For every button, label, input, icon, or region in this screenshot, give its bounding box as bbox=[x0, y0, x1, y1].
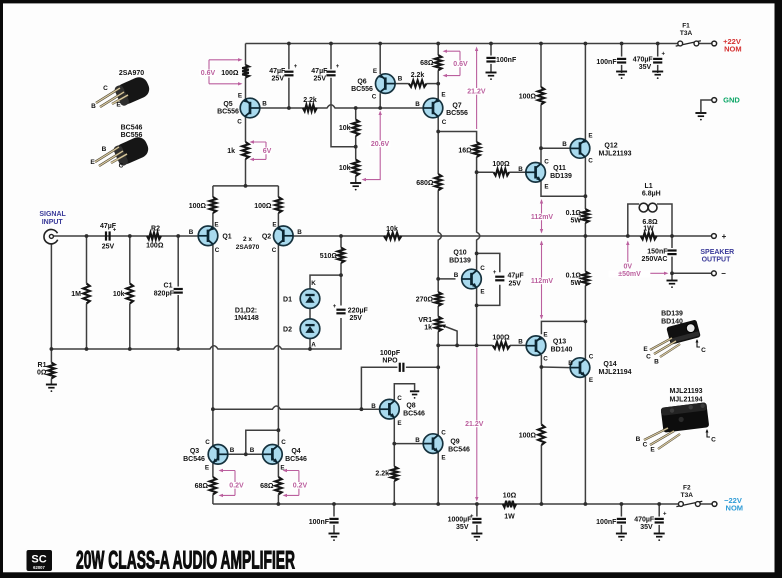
wire NPO branch bbox=[406, 366, 438, 368]
label Q3 B bbox=[230, 447, 235, 454]
label D2 bbox=[283, 327, 292, 334]
svg-text:C: C bbox=[480, 265, 485, 272]
label -22V bbox=[724, 496, 742, 505]
label Q5 E bbox=[238, 93, 242, 100]
terminal -22V bbox=[712, 502, 717, 507]
resistor 100ohm Q11 col bbox=[538, 87, 545, 105]
resistor 10k bias b bbox=[352, 160, 359, 177]
svg-text:5W: 5W bbox=[571, 218, 582, 225]
junction rail 2.2k bbox=[392, 502, 396, 506]
svg-text:680Ω: 680Ω bbox=[416, 180, 434, 187]
label Q1 bbox=[222, 234, 231, 241]
svg-text:Q12: Q12 bbox=[604, 143, 617, 150]
svg-text:Q5: Q5 bbox=[223, 101, 232, 108]
label 25V input bbox=[102, 244, 115, 251]
label Q10 B bbox=[454, 272, 459, 279]
junction VR1 wiper bbox=[455, 344, 459, 348]
label 10ohm bbox=[503, 493, 517, 500]
label 6.8ohm bbox=[642, 219, 658, 226]
svg-text:R1: R1 bbox=[38, 362, 47, 369]
label 1k bbox=[227, 148, 235, 155]
label Q8 E bbox=[397, 420, 401, 427]
wire rail to F1 output bbox=[699, 43, 712, 45]
label 1000uF 35V bbox=[456, 524, 469, 531]
capacitor 220uF bbox=[333, 304, 346, 313]
svg-text:BC556: BC556 bbox=[217, 109, 239, 116]
annotation 20.6V bbox=[362, 111, 391, 182]
ground 470uF neg bbox=[654, 534, 665, 541]
label speaker minus sign bbox=[721, 269, 726, 278]
junction rail 100ohm out bbox=[540, 502, 544, 506]
wire 10k vertical bbox=[129, 236, 131, 284]
label Q3 E bbox=[205, 465, 209, 472]
label Q14 C bbox=[589, 354, 594, 361]
junction 16ohm 100ohm node bbox=[475, 170, 479, 174]
label 10k input bbox=[113, 291, 125, 298]
capacitor C1 820pF bbox=[174, 289, 183, 293]
wire Q9 E to rail bbox=[437, 452, 439, 504]
capacitor 470uF neg bbox=[655, 512, 667, 523]
junction Q4 CB link bbox=[277, 428, 281, 432]
terminal speaker minus bbox=[712, 271, 717, 276]
label BD pkg B bbox=[654, 359, 659, 366]
wire 100ohm to Q5 E bbox=[245, 78, 247, 100]
wire tail right to 100ohm bbox=[277, 186, 279, 197]
package drawing BC546 BC556 bbox=[95, 134, 151, 167]
svg-text:100Ω: 100Ω bbox=[221, 70, 239, 77]
wire 68ohm to rail right bbox=[277, 495, 279, 505]
junction rail 1000uF bbox=[475, 502, 479, 506]
svg-text:B: B bbox=[250, 447, 255, 454]
resistor R1 0ohm bbox=[48, 363, 55, 379]
svg-text:C: C bbox=[372, 94, 377, 101]
svg-text:100nF: 100nF bbox=[596, 59, 617, 66]
label 47uF b bbox=[311, 68, 328, 75]
wire Q9 B wire bbox=[394, 443, 423, 445]
label Q14 E bbox=[589, 377, 593, 384]
svg-text:20W CLASS-A AUDIO AMPLIFIER: 20W CLASS-A AUDIO AMPLIFIER bbox=[76, 546, 295, 574]
junction Q11 E wire bbox=[584, 194, 588, 198]
svg-text:100pF: 100pF bbox=[380, 350, 401, 357]
svg-text:47µF: 47µF bbox=[311, 68, 328, 75]
wire Q3 E to 68ohm bbox=[212, 463, 214, 477]
label 2.2k Q6 bbox=[411, 72, 425, 79]
label MJL pkg C bbox=[643, 442, 648, 449]
svg-text:B: B bbox=[398, 76, 403, 83]
label 2.2k base bbox=[303, 97, 317, 104]
svg-text:Q3: Q3 bbox=[190, 448, 199, 455]
label Q10 bbox=[453, 250, 466, 257]
resistor 2.2k Q5 base bbox=[303, 105, 317, 112]
svg-text:C: C bbox=[442, 119, 447, 126]
wire rail to F1 bbox=[677, 43, 679, 45]
svg-text:Q4: Q4 bbox=[291, 448, 300, 455]
wire rail to 68ohm bbox=[437, 44, 439, 56]
junction B link bbox=[244, 452, 248, 456]
wire Q11 E down bbox=[541, 181, 585, 196]
wire node to Q10 C bbox=[476, 253, 478, 270]
wire 1000uF to ground bbox=[476, 525, 478, 533]
junction rail Q4 68ohm bbox=[277, 502, 281, 506]
svg-text:C: C bbox=[237, 119, 242, 126]
svg-text:R2: R2 bbox=[151, 226, 160, 233]
wire VR1 to node bbox=[437, 332, 439, 435]
svg-text:35V: 35V bbox=[456, 524, 469, 531]
label Q4 C bbox=[281, 439, 286, 446]
label Q6 E bbox=[373, 68, 377, 75]
svg-text:B: B bbox=[262, 101, 267, 108]
label VR1 1k bbox=[424, 325, 432, 332]
wire rail to Q6 E bbox=[379, 44, 381, 75]
label 100ohm Q1 bbox=[189, 203, 207, 210]
svg-text:F2: F2 bbox=[683, 485, 691, 492]
terminal GND bbox=[712, 98, 717, 103]
resistor 100ohm Q13 base bbox=[493, 342, 510, 349]
wire R1 to ground bbox=[50, 349, 52, 363]
svg-text:10Ω: 10Ω bbox=[503, 493, 517, 500]
label SIGNAL bbox=[39, 211, 66, 218]
wire 680ohm to rail hop bbox=[438, 190, 441, 279]
resistor R2 100ohm bbox=[147, 233, 161, 240]
wire 47uF bottom branch bbox=[477, 285, 500, 306]
label R1 0ohm bbox=[37, 370, 47, 377]
svg-text:OUTPUT: OUTPUT bbox=[702, 257, 732, 264]
wire gnd terminal bbox=[701, 100, 712, 112]
wire 16ohm to 100ohm node bbox=[476, 157, 478, 172]
svg-text:100Ω: 100Ω bbox=[146, 243, 164, 250]
annotation 6V bbox=[250, 140, 272, 161]
label BC556 pkg bbox=[121, 132, 143, 139]
wire mirror to Q8 base bbox=[213, 406, 380, 409]
wire 100ohm to Q2 E bbox=[277, 213, 279, 227]
label Q9 B bbox=[415, 437, 420, 444]
ground 10k bias bbox=[350, 183, 361, 191]
resistor 270ohm bbox=[435, 292, 442, 306]
wire 10k mid bbox=[355, 136, 357, 160]
transistor Q5 BC556 bbox=[240, 98, 260, 118]
label Q1 B bbox=[189, 229, 194, 236]
ground R1 bbox=[46, 385, 57, 393]
resistor 6.8ohm bbox=[641, 233, 657, 240]
svg-text:BD140: BD140 bbox=[551, 347, 573, 354]
svg-text:112mV: 112mV bbox=[531, 278, 554, 285]
wire 16ohm node to 100ohm bbox=[477, 171, 494, 173]
svg-text:1W: 1W bbox=[504, 514, 515, 521]
ground 1000uF bbox=[471, 534, 482, 541]
wire Q3 B link bbox=[228, 453, 246, 455]
svg-text:1000µF: 1000µF bbox=[448, 517, 473, 524]
svg-text:Q6: Q6 bbox=[357, 79, 366, 86]
capacitor 100nF psu bbox=[617, 59, 626, 63]
junction bottom C1 bbox=[176, 347, 180, 351]
junction rail 47uF a bbox=[287, 42, 291, 46]
junction input bottom R1 bbox=[50, 347, 54, 351]
label Q7 B bbox=[415, 101, 420, 108]
label Q13 B bbox=[518, 339, 523, 346]
label Q6 BC556 bbox=[351, 86, 373, 93]
label Q2 E bbox=[272, 222, 276, 229]
label 100ohm output bbox=[519, 433, 537, 440]
label Q2 bbox=[262, 234, 271, 241]
transistor Q7 BC556 bbox=[423, 98, 443, 118]
svg-text:E: E bbox=[650, 447, 655, 454]
label 2SA970 E bbox=[116, 102, 121, 109]
label F1 T3A bbox=[680, 30, 693, 37]
svg-text:2 x: 2 x bbox=[243, 236, 252, 243]
wire 510ohm to diode node bbox=[340, 263, 342, 275]
svg-text:470µF: 470µF bbox=[634, 517, 655, 524]
wire Q10 E down bbox=[476, 288, 478, 346]
annotation 112mV upper bbox=[531, 199, 554, 234]
junction bias node bbox=[436, 344, 440, 348]
svg-text:2.2k: 2.2k bbox=[303, 97, 317, 104]
annotation 0.6V Q5 bbox=[199, 58, 242, 85]
wire VAS node to 16ohm bbox=[438, 132, 476, 143]
capacitor 100nF rail bbox=[486, 58, 495, 62]
junction rail 100nF psu bbox=[620, 42, 624, 46]
label 68ohm VAS bbox=[420, 60, 434, 67]
label Q9 BC546 bbox=[448, 447, 470, 454]
wire NPO to Q8 base node bbox=[361, 367, 397, 409]
wire Q6 C down bbox=[379, 93, 381, 108]
transistor Q12 MJL21193 bbox=[570, 139, 590, 159]
label speaker plus sign bbox=[722, 232, 727, 241]
junction base line 47uF a bbox=[287, 106, 291, 110]
label 470uF psu bbox=[633, 57, 654, 64]
wire 270ohm to VR1 bbox=[437, 306, 439, 317]
label BC546 pkg bbox=[121, 125, 143, 132]
wire base line to 10k bbox=[355, 108, 357, 120]
svg-text:A: A bbox=[311, 342, 316, 349]
wire rail to 47uF b bbox=[330, 44, 332, 70]
svg-text:BD140: BD140 bbox=[661, 319, 683, 326]
resistor 100ohm Q1 load bbox=[210, 197, 217, 213]
svg-text:E: E bbox=[544, 184, 548, 191]
fuse F1 bbox=[676, 41, 701, 46]
label NPO bbox=[382, 358, 398, 365]
svg-text:25V: 25V bbox=[350, 315, 363, 322]
label 820pF bbox=[154, 291, 175, 298]
wire Q6 B to 2.2k bbox=[395, 83, 409, 85]
label Q13 C bbox=[543, 356, 548, 363]
wire 0.1ohm b to Q13 E node bbox=[584, 286, 586, 359]
label Q9 E bbox=[441, 455, 445, 462]
junction rail 68ohm bbox=[436, 42, 440, 46]
label 150nF bbox=[647, 249, 668, 256]
label D1 D2 line1 bbox=[235, 308, 257, 315]
svg-text:C: C bbox=[103, 85, 108, 92]
label 1M bbox=[71, 291, 81, 298]
wire C1 vertical bbox=[177, 236, 179, 287]
svg-text:6V: 6V bbox=[263, 148, 272, 155]
junction bottom 10k bbox=[128, 347, 132, 351]
svg-text:B: B bbox=[518, 339, 523, 346]
junction Q13 E wire bbox=[584, 320, 588, 324]
svg-text:MJL21194: MJL21194 bbox=[669, 397, 702, 404]
svg-text:C: C bbox=[205, 439, 210, 446]
resistor 100ohm Q5 emitter bbox=[242, 65, 249, 78]
label Q2 B bbox=[297, 229, 302, 236]
svg-text:47µF: 47µF bbox=[100, 223, 117, 230]
svg-text:+: + bbox=[294, 64, 298, 70]
label Q9 C bbox=[441, 430, 446, 437]
junction Q10 base node bbox=[436, 277, 440, 281]
svg-text:10k: 10k bbox=[339, 125, 351, 132]
svg-text:+: + bbox=[722, 232, 727, 241]
svg-text:+: + bbox=[662, 52, 666, 58]
svg-text:E: E bbox=[397, 420, 401, 427]
svg-text:1N4148: 1N4148 bbox=[234, 315, 259, 322]
wire node to rail hop bbox=[477, 172, 480, 253]
svg-text:0V: 0V bbox=[624, 264, 633, 271]
wire Q12 B wire bbox=[541, 147, 570, 149]
label Q10 E bbox=[480, 289, 484, 296]
label D1 bbox=[283, 297, 292, 304]
svg-text:B: B bbox=[562, 141, 567, 148]
svg-text:+: + bbox=[333, 304, 337, 310]
svg-text:B: B bbox=[518, 166, 523, 173]
label Q7 bbox=[452, 103, 461, 110]
wire output rail bbox=[293, 235, 711, 237]
junction output L1 right bbox=[670, 234, 674, 238]
label BD pkg C bbox=[646, 354, 651, 361]
svg-text:100nF: 100nF bbox=[496, 57, 517, 64]
label Q11 B bbox=[518, 166, 523, 173]
wire rail to F2 output bbox=[700, 503, 712, 505]
label Q5 B bbox=[262, 101, 267, 108]
junction NPO branch bbox=[360, 407, 364, 411]
resistor 100ohm output bbox=[538, 425, 545, 446]
svg-text:BC546: BC546 bbox=[403, 411, 425, 418]
wire 68ohm to rail left bbox=[212, 495, 214, 505]
svg-text:220µF: 220µF bbox=[348, 308, 369, 315]
label 2SA970 B bbox=[91, 103, 96, 110]
junction bias wire Q10E bbox=[475, 344, 479, 348]
resistor 10k input bbox=[127, 284, 134, 304]
svg-text:100nF: 100nF bbox=[596, 519, 617, 526]
wire Q8 C to chassis bbox=[394, 384, 414, 401]
label Q14 B bbox=[568, 360, 573, 367]
junction feedback 510ohm bbox=[339, 234, 343, 238]
svg-text:25V: 25V bbox=[272, 76, 285, 83]
wire rail to Q12 E bbox=[584, 44, 586, 141]
resistor 10k bias a bbox=[352, 120, 359, 137]
wire Q2 C down bbox=[277, 245, 279, 446]
svg-text:NOM: NOM bbox=[724, 44, 742, 53]
label Q11 BD139 bbox=[550, 173, 572, 180]
svg-text:0.6V: 0.6V bbox=[453, 61, 468, 68]
label BC546 B bbox=[102, 146, 107, 153]
svg-text:B: B bbox=[91, 103, 96, 110]
svg-text:BC546: BC546 bbox=[285, 456, 307, 463]
svg-text:B: B bbox=[102, 146, 107, 153]
svg-text:C: C bbox=[119, 163, 124, 170]
svg-text:Q9: Q9 bbox=[450, 439, 459, 446]
junction VAS node bbox=[436, 130, 440, 134]
label Q5 C bbox=[237, 119, 242, 126]
label Q5 bbox=[223, 101, 232, 108]
diode D2 1N4148 bbox=[300, 319, 320, 339]
label MJL pkg E bbox=[650, 447, 655, 454]
svg-text:25V: 25V bbox=[509, 281, 522, 288]
wire 100nF psu to ground bbox=[621, 65, 623, 73]
wire L1 left bbox=[628, 204, 639, 236]
label Q12 C bbox=[588, 158, 593, 165]
label 220uF bbox=[348, 308, 369, 315]
resistor 100ohm Q2 load bbox=[275, 197, 282, 213]
label 10k feedback bbox=[386, 226, 398, 233]
svg-text:B: B bbox=[568, 360, 573, 367]
svg-text:C: C bbox=[646, 354, 651, 361]
svg-text:10k: 10k bbox=[386, 226, 398, 233]
transistor Q9 BC546 bbox=[423, 434, 443, 454]
svg-text:100Ω: 100Ω bbox=[254, 203, 272, 210]
capacitor 47uF Q10 bbox=[493, 270, 505, 280]
svg-text:35V: 35V bbox=[640, 524, 653, 531]
svg-text:BC546: BC546 bbox=[448, 447, 470, 454]
transistor Q3 BC546 bbox=[208, 445, 228, 465]
junction input 1M bbox=[85, 234, 89, 238]
svg-text:25V: 25V bbox=[102, 244, 115, 251]
wire 470uF neg to ground bbox=[658, 525, 660, 533]
svg-text:B: B bbox=[654, 359, 659, 366]
svg-text:±50mV: ±50mV bbox=[618, 271, 641, 278]
wire 47uF a to base line bbox=[288, 78, 290, 108]
wire Q13 C down bbox=[540, 355, 542, 425]
svg-text:C: C bbox=[215, 247, 220, 254]
capacitor 470uF psu bbox=[653, 52, 665, 63]
svg-text:47µF: 47µF bbox=[508, 273, 525, 280]
label Q2 C bbox=[272, 247, 277, 254]
wire Q5 emitter to rail bbox=[245, 44, 247, 66]
capacitor 150nF bbox=[667, 251, 676, 255]
label Q7 C bbox=[442, 119, 447, 126]
label 2SA970 pair bbox=[236, 244, 260, 251]
ground 100nF frontend bbox=[329, 534, 340, 541]
label 5W a bbox=[571, 218, 582, 225]
wire zobel ground bbox=[671, 273, 673, 280]
label L1 bbox=[645, 183, 653, 190]
capacitor 47uF a bbox=[284, 64, 297, 75]
label Q4 bbox=[291, 448, 300, 455]
junction Q8 E node bbox=[392, 442, 396, 446]
label Q11 E bbox=[544, 184, 548, 191]
title 20W CLASS-A AUDIO AMPLIFIER bbox=[76, 546, 295, 574]
package drawing MJL21193 MJL21194 bbox=[644, 402, 709, 449]
svg-text:1k: 1k bbox=[227, 148, 235, 155]
svg-text:68Ω: 68Ω bbox=[260, 483, 274, 490]
label Q6 C bbox=[372, 94, 377, 101]
label 47uF a bbox=[269, 68, 286, 75]
label 510ohm bbox=[320, 253, 338, 260]
annotation 0.2V Q4 bbox=[283, 469, 309, 497]
svg-text:E: E bbox=[589, 377, 593, 384]
svg-text:1k: 1k bbox=[424, 325, 432, 332]
junction input C1 bbox=[176, 234, 180, 238]
svg-text:INPUT: INPUT bbox=[42, 219, 64, 226]
label 470uF psu 35V bbox=[639, 64, 652, 71]
wire 100ohm to rail bbox=[540, 445, 542, 504]
label 68ohm Q3 bbox=[195, 483, 209, 490]
wire rail to 470uF psu bbox=[657, 44, 659, 57]
label F1 bbox=[682, 23, 690, 30]
wire rail to 47uF a bbox=[288, 44, 290, 70]
wire D2 anode down bbox=[309, 338, 311, 349]
capacitor 100nF frontend bbox=[329, 519, 338, 523]
transistor Q11 BD139 bbox=[526, 163, 546, 183]
inductor L1 bbox=[639, 203, 657, 212]
svg-text:+: + bbox=[336, 64, 340, 70]
